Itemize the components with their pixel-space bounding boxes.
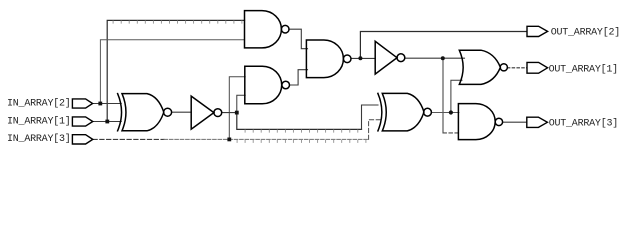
wire branch up to OUT_ARRAY[2] bbox=[360, 32, 527, 59]
wire branch down from I1 output to U4 lower input bbox=[442, 58, 444, 133]
wire X1 output to inverter I2 bbox=[172, 111, 192, 113]
wire junction riser to U2 lower input bbox=[237, 95, 245, 112]
junction at I2 output bbox=[235, 111, 239, 115]
inverter I2 bbox=[191, 96, 222, 129]
wire junction down and right to X2 upper input bbox=[237, 113, 362, 130]
nand U4 bbox=[458, 104, 502, 140]
wire U1 output to U3 upper input bbox=[289, 29, 308, 49]
input pin IN_ARRAY[3] bbox=[72, 135, 92, 144]
wire U3 output to inverter I1 bbox=[351, 57, 375, 59]
input pin IN_ARRAY[1] bbox=[72, 117, 92, 126]
wire IN_ARRAY[3] riser to X2 lower input bbox=[369, 120, 380, 140]
junction on IN_ARRAY[3] bbox=[227, 138, 231, 142]
junction X2 output riser bbox=[449, 110, 453, 114]
wire X2 output to U4 upper input bbox=[431, 112, 459, 114]
svg-text:OUT_ARRAY[3]: OUT_ARRAY[3] bbox=[549, 118, 618, 130]
svg-text:IN_ARRAY[1]: IN_ARRAY[1] bbox=[7, 115, 71, 127]
wire H1 net IN_ARRAY[1] to U1 upper input bbox=[107, 20, 244, 121]
wire U2 output to U3 lower input bbox=[290, 70, 308, 85]
wire riser X2 output to NOR lower input bbox=[451, 80, 462, 112]
nand U1 bbox=[245, 11, 290, 48]
output pin OUT_ARRAY[2] bbox=[527, 26, 548, 36]
wire IN_ARRAY[2] row bbox=[92, 103, 121, 105]
junction at I1 output bbox=[441, 56, 445, 60]
svg-text:OUT_ARRAY[2]: OUT_ARRAY[2] bbox=[551, 27, 620, 39]
nor U5 bbox=[459, 50, 507, 84]
xnor X1 back curve bbox=[118, 94, 122, 131]
junction at U3 output bbox=[358, 56, 362, 60]
wire H2 net IN_ARRAY[2] to U1 lower input bbox=[100, 40, 244, 104]
xnor X2 back curve bbox=[378, 93, 382, 130]
output pin OUT_ARRAY[3] bbox=[527, 117, 548, 127]
wire I1 output to NOR upper input bbox=[405, 57, 465, 59]
wire dashed stub into U4 lower input bbox=[443, 132, 459, 134]
output pin OUT_ARRAY[1] bbox=[527, 62, 548, 73]
wire NOR output dashed to OUT_ARRAY[1] bbox=[507, 67, 527, 69]
wire IN_ARRAY[1] row bbox=[93, 121, 122, 123]
xnor X1 body bbox=[122, 94, 172, 131]
junction on IN_ARRAY[2] bbox=[98, 102, 102, 106]
svg-text:OUT_ARRAY[1]: OUT_ARRAY[1] bbox=[549, 63, 618, 75]
wire IN_ARRAY[3] dashed row bbox=[93, 138, 164, 140]
xnor X2 body bbox=[382, 93, 431, 130]
nand U3 bbox=[306, 40, 351, 78]
wire IN_ARRAY[3] riser to U2 upper input bbox=[229, 77, 245, 140]
nand U2 bbox=[245, 66, 290, 104]
wire I2 output to junction bbox=[222, 112, 237, 114]
input pin IN_ARRAY[2] bbox=[72, 99, 92, 108]
grid tick artifacts along dark wires bbox=[113, 21, 366, 142]
wire riser to X2 upper input bbox=[362, 105, 379, 129]
svg-text:IN_ARRAY[3]: IN_ARRAY[3] bbox=[7, 133, 71, 145]
junction on IN_ARRAY[1] bbox=[105, 120, 109, 124]
inverter I1 bbox=[375, 41, 405, 74]
svg-text:IN_ARRAY[2]: IN_ARRAY[2] bbox=[7, 98, 71, 110]
wire U4 output to OUT_ARRAY[3] bbox=[503, 121, 527, 123]
